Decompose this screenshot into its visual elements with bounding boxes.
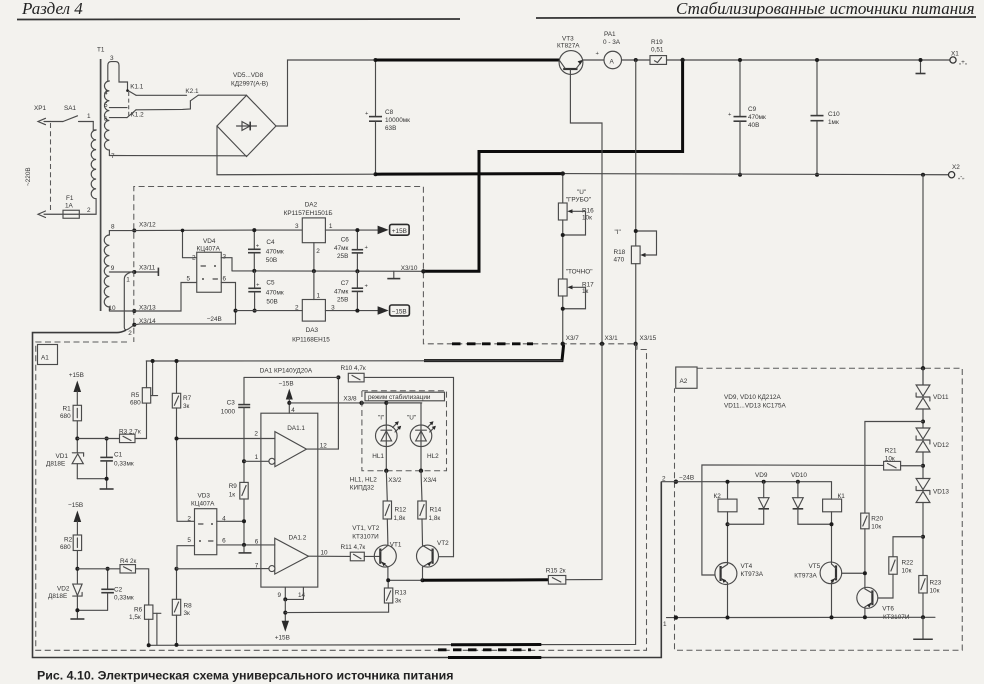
resistor R6 1,5к <box>129 605 153 647</box>
resistor R10 4,7к <box>341 365 366 382</box>
svg-text:10к: 10к <box>930 588 940 595</box>
wire R1 node to R3 <box>77 438 119 440</box>
svg-text:DA1 КР140УД20А: DA1 КР140УД20А <box>260 368 313 375</box>
terminal X1 plus <box>950 51 967 67</box>
svg-text:VD3: VD3 <box>198 493 211 500</box>
capacitor C3 1000 <box>221 377 250 461</box>
wire R10 to VT2 base column <box>364 377 453 556</box>
svg-text:"I": "I" <box>615 229 621 236</box>
resistor R13 3к <box>384 580 407 604</box>
svg-text:X3/4: X3/4 <box>423 477 437 484</box>
svg-text:R19: R19 <box>651 39 663 46</box>
capacitor C7 47мк 25В <box>334 271 369 312</box>
svg-text:14: 14 <box>298 592 306 599</box>
svg-text:VD10: VD10 <box>791 472 807 479</box>
svg-text:КИПД32: КИПД32 <box>350 485 375 492</box>
bold wire rail to X3/7 <box>424 345 564 361</box>
resistor R12 1,8к <box>383 471 407 545</box>
svg-text:режим стабилизации: режим стабилизации <box>368 393 431 401</box>
svg-text:DA3: DA3 <box>306 327 319 334</box>
T1 winding II pin 7 <box>109 153 246 160</box>
resistor R15 2к <box>546 568 566 585</box>
svg-text:R22: R22 <box>902 560 914 567</box>
wire K2.1 to bridge top <box>198 94 246 96</box>
diode bridge VD5...VD8 КД2997(А-В) <box>217 72 276 157</box>
T1 core <box>100 59 102 311</box>
svg-text:680: 680 <box>60 544 71 551</box>
svg-text:R23: R23 <box>930 580 942 587</box>
resistor R22 10к <box>878 537 923 598</box>
svg-text:C1: C1 <box>114 452 123 459</box>
zener VD12 <box>916 428 949 479</box>
label HL1, HL2 КИПД32 <box>350 477 377 492</box>
wire C5 to DA3 pin2 <box>236 310 303 312</box>
svg-text:КТ973А: КТ973А <box>741 571 764 578</box>
svg-text:R10 4,7к: R10 4,7к <box>341 365 366 372</box>
svg-text:0,33мк: 0,33мк <box>114 461 134 468</box>
transistor VT5 КТ973А <box>794 562 841 617</box>
svg-text:VD9: VD9 <box>755 472 768 479</box>
svg-text:6: 6 <box>104 116 108 123</box>
svg-text:КЦ407А: КЦ407А <box>197 245 221 252</box>
svg-text:VT6: VT6 <box>882 606 894 613</box>
regulator DA2 КР1157ЕН1501Б <box>284 202 333 256</box>
wire winding pin10 to VD4 pin 5 <box>109 283 196 312</box>
svg-text:VD12: VD12 <box>933 442 949 449</box>
resistor R5 680 <box>130 361 151 407</box>
svg-text:10к: 10к <box>871 524 881 531</box>
test point marker on plus rail <box>916 58 926 74</box>
bold overlay on return loop <box>448 656 541 659</box>
svg-text:VD5...VD8: VD5...VD8 <box>233 72 264 79</box>
svg-text:VD4: VD4 <box>203 238 216 245</box>
potentiometer R18 470 (I) <box>614 60 657 344</box>
wire R19 to output rail <box>667 59 951 61</box>
resistor R11 4,7к <box>341 544 366 561</box>
svg-text:50В: 50В <box>266 257 277 264</box>
node 2 (-24В input of A2) <box>661 475 831 500</box>
wire VD1-C1 bottom with ground <box>77 479 113 489</box>
svg-text:VT3: VT3 <box>562 36 574 43</box>
wire winding terminal 1-2 drop <box>124 273 134 330</box>
relay contact K1.2 <box>127 110 144 119</box>
svg-text:10000мк: 10000мк <box>385 117 410 124</box>
svg-text:DA1.2: DA1.2 <box>289 535 307 542</box>
svg-text:10: 10 <box>321 550 329 557</box>
svg-text:X3/1: X3/1 <box>605 335 619 342</box>
svg-text:R4 2к: R4 2к <box>120 558 136 565</box>
svg-text:X3/15: X3/15 <box>640 335 657 342</box>
junction VD13 to R22/R23 <box>921 535 925 539</box>
wire R15 to X3/1 column <box>566 344 602 580</box>
svg-text:470мк: 470мк <box>748 114 766 121</box>
wire bridge plus to C8 node <box>276 60 376 126</box>
svg-text:50В: 50В <box>266 299 277 306</box>
resistor R20 10к <box>861 513 884 588</box>
svg-text:R8: R8 <box>184 603 193 610</box>
wire VT2 emitter down <box>422 567 424 580</box>
wire VT1 emitter junction <box>388 567 423 580</box>
svg-text:R1: R1 <box>63 406 72 413</box>
T1 winding II tap 6 <box>104 116 127 123</box>
T1 winding II tap 5 <box>104 102 127 109</box>
svg-text:0 - 3А: 0 - 3А <box>603 39 621 46</box>
wire R4 to R6 <box>136 569 149 605</box>
node X3/8 wire <box>289 396 422 406</box>
svg-text:КР1168ЕН15: КР1168ЕН15 <box>292 337 330 344</box>
svg-text:VD9, VD10 КД212А: VD9, VD10 КД212А <box>724 394 781 401</box>
svg-text:2: 2 <box>254 431 258 438</box>
resistor R4 2к <box>120 558 136 573</box>
svg-text:КР1157ЕН1501Б: КР1157ЕН1501Б <box>284 210 333 217</box>
svg-text:5: 5 <box>187 537 191 544</box>
DA1 pins 9 and 14 bracket <box>278 587 306 621</box>
node X3/2 <box>384 447 402 484</box>
svg-text:1: 1 <box>663 621 667 628</box>
zener VD2 Д818Е <box>48 584 82 610</box>
ammeter PA1 0-3А <box>596 31 622 69</box>
output arrow -15В <box>378 305 410 316</box>
svg-text:7: 7 <box>111 153 115 160</box>
thick wire C8 plus to VT3 collector <box>376 59 560 62</box>
negative rail to X2 <box>563 174 949 175</box>
svg-text:6: 6 <box>223 276 227 283</box>
svg-text:C3: C3 <box>227 400 236 407</box>
dashed box режим стабилизации <box>362 391 447 471</box>
regulator DA3 КР1168ЕН15 <box>292 293 335 344</box>
connector XP1 (mains plug) <box>34 105 63 218</box>
svg-text:F1: F1 <box>66 195 74 202</box>
terminal X2 minus <box>949 164 965 181</box>
svg-text:3к: 3к <box>183 403 190 410</box>
wire A1 top rail <box>146 360 562 362</box>
resistor R2 680 <box>60 535 82 584</box>
capacitor C2 0,33мк <box>101 567 134 611</box>
svg-text:4: 4 <box>291 407 295 414</box>
svg-text:R7: R7 <box>183 395 192 402</box>
bold overlay bottom rail <box>451 643 541 646</box>
wire VT3 base to X3/1 column <box>570 70 602 344</box>
svg-text:470мк: 470мк <box>266 248 284 255</box>
wire R7 column to DA1.2 pin7 <box>177 568 272 570</box>
switch SA1 <box>51 105 94 122</box>
svg-text:X3/2: X3/2 <box>388 477 402 484</box>
svg-text:+15В: +15В <box>69 372 84 379</box>
supply arrow +15В <box>69 372 84 405</box>
svg-text:VT5: VT5 <box>809 563 821 570</box>
svg-text:3к: 3к <box>395 598 402 605</box>
svg-text:470мк: 470мк <box>266 289 284 296</box>
transistor VT1 КТ3107И <box>352 525 402 568</box>
wire VD2-C2 bottom with ground <box>70 608 107 619</box>
svg-text:K1.1: K1.1 <box>130 84 144 91</box>
svg-text:C8: C8 <box>385 109 394 116</box>
svg-text:VD11...VD13 КС175А: VD11...VD13 КС175А <box>724 403 787 410</box>
svg-text:−15В: −15В <box>68 502 83 509</box>
wire VT5 base to R20 column <box>842 572 865 574</box>
resistor R7 3к <box>172 359 191 521</box>
transistor VT3 КТ827А <box>557 36 583 75</box>
svg-text:10к: 10к <box>902 568 912 575</box>
potentiometer R17 1к (ТОЧНО) <box>558 269 594 344</box>
svg-text:R14: R14 <box>430 507 442 514</box>
svg-text:47мк: 47мк <box>334 288 349 295</box>
svg-text:3: 3 <box>223 254 227 261</box>
diode VD9 <box>728 472 770 524</box>
capacitor C8 10000мк 63В <box>365 58 410 176</box>
svg-text:А2: А2 <box>680 378 688 385</box>
svg-text:VT4: VT4 <box>741 563 753 570</box>
op-amp DA1 КР140УД20А <box>260 368 318 588</box>
node X3/7 <box>561 335 580 346</box>
svg-text:0,33мк: 0,33мк <box>114 595 134 602</box>
bold wire emitters to R15 <box>423 578 549 582</box>
ground of A2 <box>913 617 933 639</box>
relay contact K1.1 <box>126 84 144 96</box>
svg-text:C5: C5 <box>266 280 275 287</box>
svg-text:X3/11: X3/11 <box>139 265 156 272</box>
svg-text:K2.1: K2.1 <box>185 88 199 95</box>
svg-text:+15В: +15В <box>392 228 407 235</box>
capacitor C9 470мк 40В <box>728 58 766 177</box>
wire R3 to R5 riser <box>135 403 147 438</box>
svg-text:9: 9 <box>278 592 282 599</box>
svg-text:VD1: VD1 <box>56 453 69 460</box>
wire branch to VD4 pin 2 <box>183 230 197 257</box>
R5 tap to rail <box>151 359 158 396</box>
dashed boundary of module A2 <box>675 368 963 650</box>
zener VD1 Д818Е <box>46 453 84 479</box>
potentiometer R16 10к (U ГРУБО) <box>558 171 594 279</box>
T1 primary winding <box>79 122 96 215</box>
relay contact K2.1 <box>185 88 199 101</box>
svg-text:1к: 1к <box>229 492 236 499</box>
svg-text:T1: T1 <box>97 47 105 54</box>
wire K1.2 blade to K2.1 riser <box>136 101 190 110</box>
svg-text:2: 2 <box>192 255 196 262</box>
zener VD11 <box>916 366 949 428</box>
svg-text:КЦ407А: КЦ407А <box>191 501 215 508</box>
svg-text:C6: C6 <box>341 237 350 244</box>
page header right: Стабилизированные источники питания <box>536 0 976 18</box>
thick wire ground bus X3/10 to X2 rail <box>423 60 682 271</box>
zener VD13 <box>916 479 949 576</box>
svg-text:1,8к: 1,8к <box>394 515 406 522</box>
resistor R8 3к <box>172 567 192 647</box>
svg-text:25В: 25В <box>337 253 348 260</box>
label box А2 <box>676 367 697 388</box>
svg-text:HL1: HL1 <box>372 453 384 460</box>
transistor VT4 КТ973А <box>715 563 764 618</box>
node X3/4 <box>419 447 437 484</box>
resistor R23 10к <box>919 576 942 618</box>
svg-text:КД2997(А-В): КД2997(А-В) <box>231 81 268 88</box>
svg-text:"ГРУБО": "ГРУБО" <box>566 197 591 204</box>
wire DA2 pin2 to mid rail <box>313 243 315 271</box>
svg-text:1: 1 <box>317 293 321 300</box>
capacitor C10 1мк <box>811 58 841 177</box>
svg-text:КТ3107И: КТ3107И <box>352 534 379 541</box>
svg-text:7: 7 <box>255 563 259 570</box>
svg-text:5: 5 <box>187 276 191 283</box>
page header left: Раздел 4 <box>17 0 460 20</box>
resistor R14 1,8к <box>418 471 442 545</box>
svg-text:1,5к: 1,5к <box>129 614 141 621</box>
svg-text:5: 5 <box>104 102 108 109</box>
resistor R9 1к <box>229 459 249 545</box>
wire DA3 pin1 to mid rail <box>313 271 315 299</box>
node X3/10 with ground <box>387 265 425 279</box>
svg-text:Д818Е: Д818Е <box>46 461 65 468</box>
svg-text:X3/10: X3/10 <box>401 265 418 272</box>
svg-text:−15В: −15В <box>392 309 407 316</box>
junction PA1-R18 column <box>634 58 638 62</box>
svg-text:DA2: DA2 <box>305 202 318 209</box>
svg-text:R15 2к: R15 2к <box>546 568 566 575</box>
svg-text:R9: R9 <box>229 483 238 490</box>
svg-text:DA1.1: DA1.1 <box>287 425 305 432</box>
LED HL2 КИПД32 <box>386 403 439 460</box>
node X3/1 <box>600 335 618 346</box>
wire PA1 to R19 <box>622 59 651 61</box>
svg-text:3к: 3к <box>184 610 191 617</box>
svg-text:4: 4 <box>104 90 108 97</box>
bold dashed overlay bottom <box>438 648 531 651</box>
svg-text:R11 4,7к: R11 4,7к <box>341 544 366 551</box>
svg-text:1: 1 <box>126 276 130 283</box>
node X3/11 with terminator <box>132 265 158 277</box>
svg-text:+15В: +15В <box>275 635 290 642</box>
svg-text:X3/8: X3/8 <box>343 396 357 403</box>
svg-text:2: 2 <box>128 330 132 337</box>
svg-text:~220В: ~220В <box>25 167 32 186</box>
svg-text:−24В: −24В <box>679 475 694 482</box>
capacitor C4 470мк 50В <box>248 228 284 273</box>
resistor R3 2,7к <box>119 429 141 443</box>
svg-text:А1: А1 <box>41 355 49 362</box>
T1 winding III <box>104 231 109 311</box>
svg-text:1,8к: 1,8к <box>429 515 441 522</box>
svg-text:Рис. 4.10. Электрическая схема: Рис. 4.10. Электрическая схема универсал… <box>37 669 453 683</box>
node 1 rail of A2 <box>663 615 935 628</box>
svg-text:VD2: VD2 <box>57 586 70 593</box>
svg-text:63В: 63В <box>385 125 396 132</box>
svg-text:−24В: −24В <box>207 316 222 323</box>
mechanical link K1.1-K1.2 <box>128 92 130 116</box>
wire VD3 pin5 down to pin7 net <box>177 546 195 569</box>
svg-text:VT2: VT2 <box>437 540 449 547</box>
svg-text:PA1: PA1 <box>604 31 616 38</box>
wire X3/14 -24В to VD4 pin 6 drop <box>134 323 235 326</box>
svg-text:А: А <box>610 59 615 66</box>
svg-text:6: 6 <box>255 539 259 546</box>
node X3/15 <box>633 335 656 346</box>
svg-text:Стабилизированные источники пи: Стабилизированные источники питания <box>676 0 975 18</box>
wire K1.1 blade to K2.1 contact <box>136 94 187 96</box>
wire VD4 pin3 to mid rail <box>221 258 232 271</box>
svg-text:X3/7: X3/7 <box>566 335 580 342</box>
wire VD4 pin6 down <box>221 283 235 324</box>
svg-text:КТ827А: КТ827А <box>557 43 580 50</box>
svg-text:1: 1 <box>255 454 259 461</box>
svg-text:„-„: „-„ <box>958 174 964 181</box>
svg-text:Д818Е: Д818Е <box>48 593 67 600</box>
resistor R19 0,51 <box>650 39 667 64</box>
svg-text:9: 9 <box>111 265 115 272</box>
wire R13 bottom to pins 9,14 node <box>285 603 388 613</box>
svg-text:R20: R20 <box>871 516 883 523</box>
transistor VT6 КТ3107И <box>857 587 910 621</box>
svg-text:C4: C4 <box>266 239 275 246</box>
svg-text:1000: 1000 <box>221 408 236 415</box>
svg-text:VT1, VT2: VT1, VT2 <box>352 525 379 532</box>
svg-text:C10: C10 <box>828 111 840 118</box>
wire VD3 pin4 to R9 <box>217 520 244 522</box>
capacitor C5 470мк 50В <box>248 271 284 313</box>
svg-text:КТ973А: КТ973А <box>794 573 817 580</box>
svg-text:HL1, HL2: HL1, HL2 <box>350 477 377 484</box>
svg-text:C7: C7 <box>341 280 350 287</box>
svg-text:"U": "U" <box>407 415 416 422</box>
svg-text:40В: 40В <box>748 122 759 129</box>
supply arrow +15В (pins 9,14) <box>275 621 290 642</box>
svg-text:XP1: XP1 <box>34 105 47 112</box>
diode VD10 <box>791 472 832 524</box>
svg-text:R5: R5 <box>131 392 140 399</box>
svg-text:Раздел 4: Раздел 4 <box>21 0 83 18</box>
svg-text:C2: C2 <box>114 587 123 594</box>
svg-text:R2: R2 <box>64 537 73 544</box>
bold dashed overlay top <box>452 342 533 345</box>
svg-text:VD11: VD11 <box>933 394 949 401</box>
svg-text:12: 12 <box>320 443 328 450</box>
svg-text:"ТОЧНО": "ТОЧНО" <box>566 269 593 276</box>
supply arrow -15В lower <box>68 502 83 535</box>
svg-text:470: 470 <box>614 257 625 264</box>
LED HL1 КИПД32 <box>372 401 401 460</box>
svg-text:1мк: 1мк <box>828 119 839 126</box>
wire DA2 pin1 to +15В output <box>325 229 377 231</box>
label box А1 <box>38 345 58 365</box>
svg-text:1: 1 <box>329 223 333 230</box>
rectifier VD3 КЦ407А <box>187 493 226 555</box>
svg-text:C9: C9 <box>748 106 757 113</box>
node X3/12 <box>132 222 156 233</box>
junction X2 column <box>921 173 925 177</box>
T1 winding III pin 9 <box>109 265 134 272</box>
svg-text:R13: R13 <box>395 590 407 597</box>
node X3/13 <box>132 305 156 314</box>
rectifier VD4 КЦ407А <box>187 238 227 292</box>
relay coil K1 <box>823 493 846 562</box>
supply arrow -15В (pin 4) <box>279 380 296 414</box>
svg-text:25В: 25В <box>337 297 348 304</box>
svg-text:47мк: 47мк <box>334 245 349 252</box>
thick wire negative rail segment <box>376 172 563 176</box>
svg-text:2: 2 <box>87 207 91 214</box>
svg-text:1: 1 <box>87 113 91 120</box>
svg-text:1А: 1А <box>65 203 74 210</box>
svg-text:6: 6 <box>222 537 226 544</box>
svg-text:"I": "I" <box>378 415 384 422</box>
svg-text:3: 3 <box>110 55 114 62</box>
resistor R1 680 <box>60 405 82 452</box>
capacitor C6 47мк 25В <box>334 228 369 273</box>
wire VD3 pin2 to R7 column <box>177 520 195 522</box>
svg-text:VD13: VD13 <box>933 489 949 496</box>
wire VT3 emitter to PA1 <box>583 59 604 61</box>
wire X3/15 column to A1 bottom rail <box>149 344 636 646</box>
